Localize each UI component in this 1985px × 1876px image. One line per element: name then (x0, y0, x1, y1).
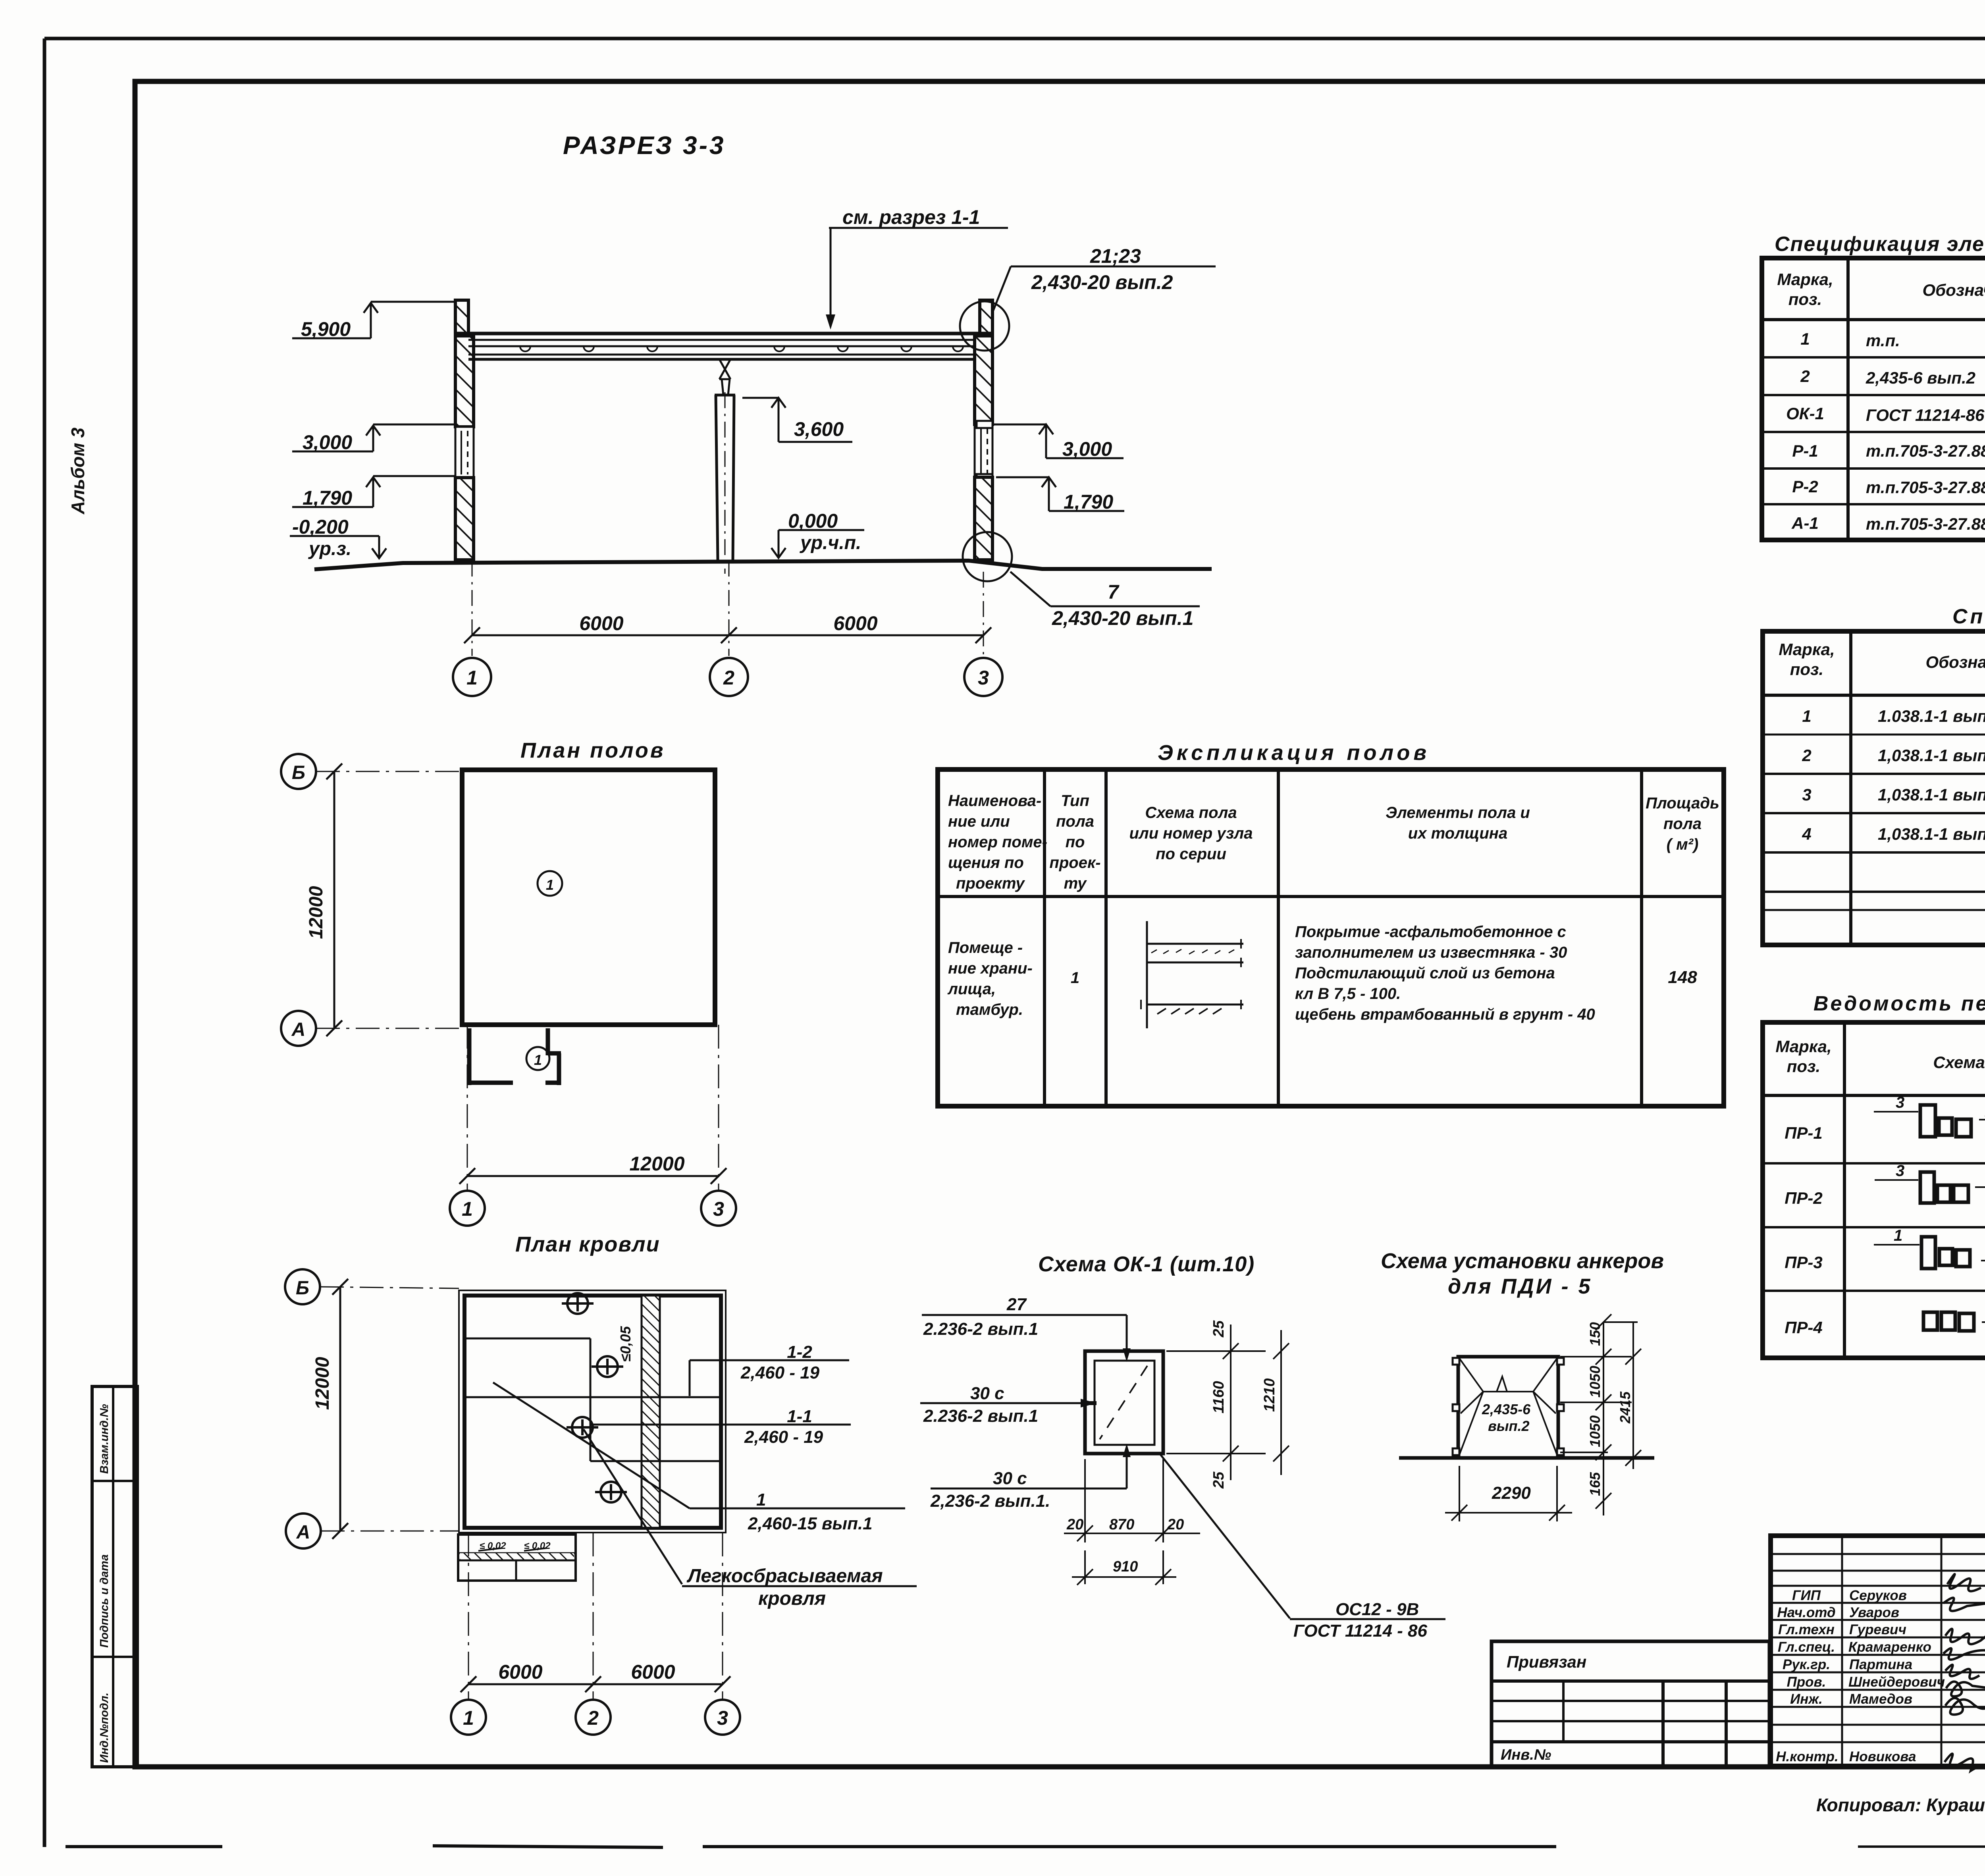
svg-text:Марка,: Марка, (1777, 270, 1833, 289)
svg-text:2: 2 (1802, 746, 1811, 765)
svg-text:2.236-2 вып.1: 2.236-2 вып.1 (923, 1319, 1038, 1339)
svg-text:4: 4 (1802, 825, 1811, 843)
svg-text:Обозначение: Обозначение (1925, 653, 1985, 671)
svg-text:Элементы пола и: Элементы пола и (1386, 804, 1530, 821)
svg-text:пола: пола (1056, 813, 1094, 830)
svg-text:А: А (296, 1522, 310, 1543)
svg-text:21;23: 21;23 (1090, 245, 1141, 267)
svg-text:ГОСТ 11214-86: ГОСТ 11214-86 (1866, 406, 1985, 424)
svg-text:А-1: А-1 (1791, 514, 1819, 532)
svg-text:≤ 0,02: ≤ 0,02 (524, 1541, 551, 1551)
svg-text:А: А (291, 1019, 306, 1040)
svg-text:Р-2: Р-2 (1792, 477, 1818, 496)
svg-text:2,430-20 вып.1: 2,430-20 вып.1 (1052, 607, 1193, 629)
svg-text:150: 150 (1587, 1322, 1603, 1346)
svg-text:ур.з.: ур.з. (308, 538, 351, 559)
svg-text:кл В 7,5 - 100.: кл В 7,5 - 100. (1295, 985, 1401, 1003)
svg-text:3: 3 (1896, 1162, 1904, 1180)
svg-text:1160: 1160 (1210, 1381, 1227, 1413)
svg-text:870: 870 (1109, 1516, 1134, 1533)
svg-text:1: 1 (546, 877, 554, 893)
svg-text:12000: 12000 (629, 1153, 684, 1175)
svg-text:3: 3 (1896, 1094, 1904, 1111)
svg-text:поз.: поз. (1790, 660, 1823, 679)
svg-text:1-1: 1-1 (787, 1407, 812, 1426)
svg-text:Марка,: Марка, (1775, 1037, 1831, 1056)
svg-text:2290: 2290 (1492, 1483, 1531, 1503)
svg-text:Пров.: Пров. (1787, 1674, 1826, 1690)
svg-text:тамбур.: тамбур. (956, 1001, 1023, 1018)
svg-text:25: 25 (1210, 1320, 1227, 1338)
svg-text:Спецификация перемычек: Спецификация перемычек (1952, 605, 1985, 628)
svg-text:25: 25 (1210, 1471, 1227, 1489)
svg-text:2: 2 (723, 667, 734, 689)
svg-text:1: 1 (462, 1198, 473, 1220)
svg-text:≤ 0,02: ≤ 0,02 (480, 1541, 506, 1551)
svg-text:1: 1 (756, 1490, 766, 1510)
svg-text:6000: 6000 (498, 1661, 542, 1683)
svg-text:РАЗРЕЗ 3-3: РАЗРЕЗ 3-3 (563, 131, 726, 160)
svg-text:ГОСТ 11214 - 86: ГОСТ 11214 - 86 (1293, 1621, 1428, 1641)
svg-text:Марка,: Марка, (1779, 640, 1835, 659)
svg-text:Партина: Партина (1849, 1657, 1912, 1672)
svg-text:Копировал: Курашева: Копировал: Курашева (1816, 1795, 1985, 1815)
svg-text:Схема пола: Схема пола (1145, 804, 1237, 821)
svg-text:910: 910 (1113, 1558, 1138, 1575)
svg-text:Уваров: Уваров (1849, 1605, 1899, 1620)
svg-text:3: 3 (717, 1707, 728, 1729)
svg-text:т.п.705-3-27.88 -АРИ-Р-2: т.п.705-3-27.88 -АРИ-Р-2 (1866, 478, 1985, 497)
svg-text:пола: пола (1663, 815, 1702, 833)
svg-text:Н.контр.: Н.контр. (1776, 1749, 1838, 1764)
svg-text:1: 1 (1894, 1227, 1902, 1244)
svg-text:Спецификация элементов зап: Спецификация элементов заполнения проемо… (1775, 233, 1985, 256)
svg-text:поз.: поз. (1787, 1057, 1820, 1076)
svg-text:т.п.705-3-27.88 - АРИ-А-1: т.п.705-3-27.88 - АРИ-А-1 (1866, 515, 1985, 533)
svg-text:Ведомость перемычек: Ведомость перемычек (1813, 992, 1985, 1015)
svg-text:3: 3 (1802, 785, 1811, 804)
svg-text:-0,200: -0,200 (292, 516, 349, 538)
svg-text:Привязан: Привязан (1507, 1652, 1586, 1671)
svg-text:2,460 - 19: 2,460 - 19 (744, 1427, 823, 1447)
svg-text:ГИП: ГИП (1792, 1588, 1821, 1603)
svg-text:Подпись и дата: Подпись и дата (98, 1554, 111, 1648)
svg-text:5,900: 5,900 (301, 318, 351, 340)
svg-text:12000: 12000 (306, 886, 327, 939)
svg-text:2,236-2 вып.1.: 2,236-2 вып.1. (930, 1491, 1050, 1511)
svg-text:2,460-15 вып.1: 2,460-15 вып.1 (748, 1514, 873, 1533)
svg-text:ту: ту (1064, 875, 1087, 892)
svg-text:их толщина: их толщина (1408, 825, 1507, 842)
svg-text:проекту: проекту (956, 875, 1025, 892)
svg-text:Мамедов: Мамедов (1849, 1691, 1912, 1707)
svg-text:1210: 1210 (1261, 1378, 1278, 1412)
svg-text:План полов: План полов (520, 738, 665, 762)
svg-text:20: 20 (1066, 1516, 1083, 1533)
svg-text:3,000: 3,000 (303, 431, 352, 453)
svg-text:1: 1 (1802, 707, 1811, 725)
svg-text:Схема сечения: Схема сечения (1933, 1053, 1985, 1072)
svg-text:3: 3 (713, 1198, 724, 1220)
svg-text:т.п.705-3-27.88 -АРИ-Р-1: т.п.705-3-27.88 -АРИ-Р-1 (1866, 442, 1985, 460)
svg-text:т.п.: т.п. (1866, 331, 1900, 350)
svg-text:щебень втрамбованный в грунт: щебень втрамбованный в грунт - 40 (1295, 1006, 1595, 1023)
svg-text:0,000: 0,000 (788, 510, 838, 532)
svg-text:Инж.: Инж. (1790, 1691, 1823, 1707)
svg-text:Рук.гр.: Рук.гр. (1783, 1657, 1830, 1672)
svg-text:или номер узла: или номер узла (1129, 825, 1253, 842)
svg-text:1: 1 (466, 667, 478, 689)
svg-text:Легкосбрасываемая: Легкосбрасываемая (686, 1566, 883, 1587)
svg-text:ПР-3: ПР-3 (1785, 1253, 1823, 1272)
svg-text:1: 1 (463, 1707, 474, 1729)
svg-text:30 с: 30 с (970, 1384, 1004, 1403)
svg-text:2,460 - 19: 2,460 - 19 (740, 1363, 820, 1382)
svg-text:заполнителем из известняка -: заполнителем из известняка - 30 (1295, 944, 1567, 961)
svg-text:Обозначение: Обозначение (1922, 281, 1985, 299)
svg-text:ОК-1: ОК-1 (1786, 404, 1824, 423)
svg-text:Серуков: Серуков (1849, 1588, 1907, 1603)
svg-text:12000: 12000 (312, 1357, 333, 1410)
svg-text:кровля: кровля (758, 1588, 826, 1609)
svg-text:30 с: 30 с (993, 1469, 1027, 1488)
svg-text:номер поме-: номер поме- (948, 833, 1047, 851)
svg-text:Крамаренко: Крамаренко (1848, 1639, 1931, 1655)
svg-text:Схема установки анкеров: Схема установки анкеров (1381, 1249, 1664, 1273)
svg-text:ПР-4: ПР-4 (1785, 1318, 1823, 1337)
svg-text:1.038.1-1 вып.1: 1.038.1-1 вып.1 (1878, 707, 1985, 725)
svg-text:для ПДИ - 5: для ПДИ - 5 (1448, 1274, 1592, 1298)
svg-text:2,430-20 вып.2: 2,430-20 вып.2 (1031, 271, 1173, 293)
svg-text:3: 3 (978, 667, 989, 689)
svg-text:Тип: Тип (1061, 792, 1089, 810)
svg-text:1050: 1050 (1587, 1366, 1603, 1398)
svg-text:1-2: 1-2 (787, 1342, 812, 1362)
svg-text:лища,: лища, (947, 980, 996, 998)
svg-text:1: 1 (1800, 330, 1810, 348)
svg-text:Р-1: Р-1 (1792, 442, 1818, 460)
svg-text:6000: 6000 (833, 612, 877, 634)
svg-text:см. разрез 1-1: см. разрез 1-1 (842, 206, 980, 228)
svg-text:вып.2: вып.2 (1488, 1418, 1530, 1434)
svg-text:20: 20 (1167, 1516, 1184, 1533)
svg-text:проек-: проек- (1049, 854, 1100, 871)
svg-text:1: 1 (1071, 969, 1079, 987)
svg-text:148: 148 (1668, 968, 1697, 987)
svg-text:ние или: ние или (948, 813, 1010, 830)
svg-text:2: 2 (587, 1707, 599, 1729)
svg-text:6000: 6000 (631, 1661, 675, 1683)
svg-text:Экспликация полов: Экспликация полов (1158, 741, 1430, 765)
svg-text:ПР-1: ПР-1 (1785, 1124, 1823, 1142)
svg-text:Шнейдерович: Шнейдерович (1848, 1674, 1945, 1690)
svg-text:2.236-2 вып.1: 2.236-2 вып.1 (923, 1406, 1038, 1426)
svg-text:Помеще -: Помеще - (948, 939, 1023, 956)
svg-text:1050: 1050 (1587, 1415, 1603, 1447)
svg-text:Покрытие -асфальтобетонное с: Покрытие -асфальтобетонное с (1295, 923, 1566, 941)
svg-text:Альбом 3: Альбом 3 (67, 427, 88, 515)
svg-text:≤0,05: ≤0,05 (617, 1326, 634, 1362)
svg-text:поз.: поз. (1788, 290, 1822, 308)
svg-text:2: 2 (1800, 367, 1810, 386)
svg-text:Б: Б (296, 1278, 309, 1299)
svg-text:Инв.№: Инв.№ (1501, 1747, 1551, 1763)
svg-text:Наименова-: Наименова- (948, 792, 1041, 810)
svg-text:Взам.инд.№: Взам.инд.№ (98, 1404, 111, 1474)
svg-text:План кровли: План кровли (515, 1232, 660, 1256)
svg-text:Гл.техн: Гл.техн (1778, 1622, 1835, 1637)
svg-text:щения по: щения по (948, 854, 1024, 871)
svg-text:3,000: 3,000 (1062, 438, 1112, 460)
svg-text:( м²): ( м²) (1667, 836, 1699, 853)
svg-text:ние храни-: ние храни- (948, 960, 1033, 977)
svg-text:2,435-6: 2,435-6 (1482, 1401, 1531, 1417)
svg-text:1,038.1-1 вып.1: 1,038.1-1 вып.1 (1878, 825, 1985, 843)
svg-text:6000: 6000 (579, 612, 623, 634)
svg-text:Подстилающий слой из бетона: Подстилающий слой из бетона (1295, 964, 1555, 982)
svg-text:1,038.1-1 вып.1: 1,038.1-1 вып.1 (1878, 746, 1985, 765)
svg-text:3,600: 3,600 (794, 418, 844, 440)
svg-text:1,790: 1,790 (1064, 491, 1113, 513)
svg-text:Гл.спец.: Гл.спец. (1778, 1639, 1835, 1655)
svg-text:2,435-6 вып.2: 2,435-6 вып.2 (1866, 368, 1975, 387)
svg-text:165: 165 (1587, 1472, 1603, 1496)
svg-text:ур.ч.п.: ур.ч.п. (800, 532, 861, 553)
svg-text:1,790: 1,790 (303, 487, 352, 509)
svg-text:ОС12 - 9В: ОС12 - 9В (1336, 1600, 1419, 1619)
svg-text:27: 27 (1006, 1295, 1027, 1314)
svg-text:Б: Б (292, 762, 305, 783)
svg-text:Новикова: Новикова (1849, 1749, 1916, 1764)
svg-text:2415: 2415 (1617, 1391, 1633, 1424)
svg-text:Площадь: Площадь (1646, 794, 1719, 812)
svg-text:Схема ОК-1 (шт.10): Схема ОК-1 (шт.10) (1038, 1252, 1255, 1276)
svg-text:ПР-2: ПР-2 (1785, 1189, 1823, 1207)
svg-text:1: 1 (534, 1052, 542, 1068)
svg-text:Гуревич: Гуревич (1849, 1622, 1906, 1637)
svg-text:1,038.1-1 вып.1: 1,038.1-1 вып.1 (1878, 785, 1985, 804)
svg-text:по серии: по серии (1156, 845, 1226, 863)
svg-text:Нач.отд: Нач.отд (1777, 1605, 1835, 1620)
svg-text:по: по (1066, 833, 1085, 851)
svg-text:7: 7 (1108, 581, 1120, 603)
svg-text:Инд.№подл.: Инд.№подл. (98, 1693, 111, 1763)
